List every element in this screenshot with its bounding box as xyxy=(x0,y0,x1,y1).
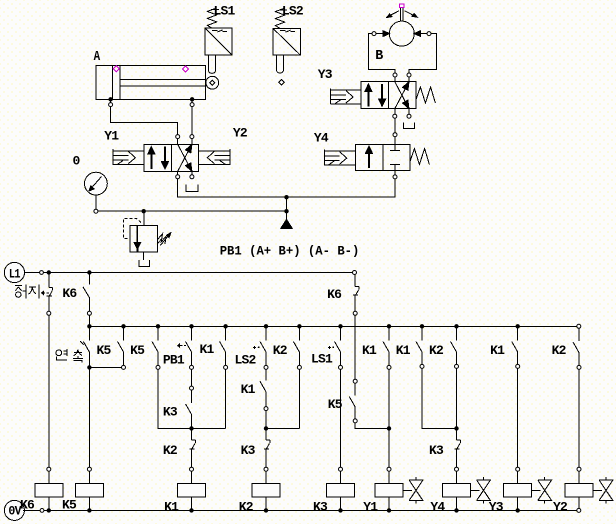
svg-text:Y2: Y2 xyxy=(233,126,248,141)
svg-text:Y3: Y3 xyxy=(318,67,333,82)
svg-text:K2: K2 xyxy=(273,343,288,358)
svg-text:LS2: LS2 xyxy=(235,353,257,368)
svg-text:K6: K6 xyxy=(62,286,77,301)
svg-text:B: B xyxy=(375,48,384,64)
svg-text:Y4: Y4 xyxy=(430,499,445,514)
svg-text:K3: K3 xyxy=(429,443,444,458)
svg-text:LS1: LS1 xyxy=(311,352,333,367)
svg-text:A: A xyxy=(94,49,101,65)
svg-text:K5: K5 xyxy=(62,497,77,512)
svg-text:PB1: PB1 xyxy=(163,353,185,368)
svg-text:K1: K1 xyxy=(241,382,256,397)
svg-text:PB1 (A+ B+) (A- B-): PB1 (A+ B+) (A- B-) xyxy=(220,243,360,258)
svg-text:0: 0 xyxy=(73,153,81,168)
svg-text:K6: K6 xyxy=(327,287,342,302)
svg-text:K2: K2 xyxy=(552,343,567,358)
svg-text:K2: K2 xyxy=(163,443,178,458)
svg-text:K1: K1 xyxy=(396,343,411,358)
svg-text:K1: K1 xyxy=(490,343,505,358)
svg-text:K5: K5 xyxy=(97,343,112,358)
svg-text:Y1: Y1 xyxy=(363,499,378,514)
svg-text:K2: K2 xyxy=(239,499,254,514)
svg-text:Y4: Y4 xyxy=(314,131,329,146)
svg-text:K1: K1 xyxy=(164,499,179,514)
svg-text:K1: K1 xyxy=(200,342,215,357)
svg-text:K3: K3 xyxy=(313,499,328,514)
svg-text:K5: K5 xyxy=(328,397,343,412)
svg-text:K3: K3 xyxy=(163,405,178,420)
svg-text:K2: K2 xyxy=(429,343,444,358)
svg-text:K1: K1 xyxy=(362,343,377,358)
svg-text:LS2: LS2 xyxy=(282,4,304,19)
svg-text:Y1: Y1 xyxy=(104,129,119,144)
svg-text:K5: K5 xyxy=(130,343,145,358)
svg-text:K3: K3 xyxy=(241,443,256,458)
svg-text:Y2: Y2 xyxy=(553,499,568,514)
svg-text:LS1: LS1 xyxy=(214,4,236,19)
svg-text:Y3: Y3 xyxy=(489,499,504,514)
svg-text:L1: L1 xyxy=(9,266,21,281)
svg-text:K6: K6 xyxy=(20,497,35,512)
